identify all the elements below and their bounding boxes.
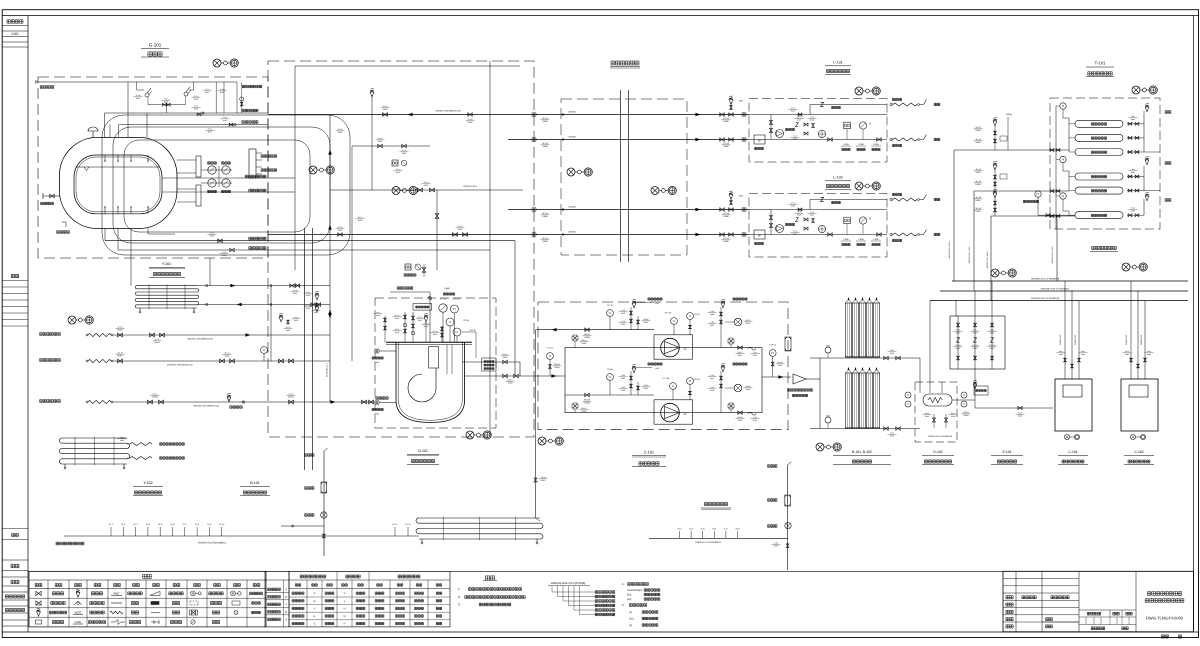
legend symbols (36, 591, 41, 595)
bubble trios mid bus (567, 168, 575, 176)
svg-text:DN25: DN25 (973, 347, 978, 350)
pump loop rectangle (565, 348, 762, 413)
svg-text:LNG(80): LNG(80) (568, 136, 576, 139)
svg-text:TI: TI (907, 394, 910, 397)
svg-text:Y-101: Y-101 (162, 262, 171, 266)
svg-text:YP-13: YP-13 (286, 326, 291, 329)
strip row 533 (2, 528, 28, 530)
CNG bus lines (952, 280, 1188, 282)
valve stack 2 (404, 312, 406, 342)
svg-text:LS-13: LS-13 (797, 211, 802, 214)
svg-text:DN15: DN15 (753, 419, 758, 422)
svg-text:SP: SP (758, 140, 762, 143)
tank G-101 outer shell (59, 137, 177, 228)
svg-text:W10: W10 (621, 312, 625, 315)
tank wrap-around pipe loop 1 (102, 115, 350, 255)
relief group on LP line (994, 125, 996, 150)
manifold instrument pair (392, 160, 398, 166)
riser to MP cylinder group (973, 191, 975, 291)
manifold vertical x352 (351, 190, 353, 361)
svg-text:LL-12: LL-12 (793, 230, 797, 233)
svg-text:DN80: DN80 (723, 240, 729, 243)
heater instruments (905, 392, 911, 398)
svg-text:TG-17: TG-17 (357, 216, 362, 219)
svg-text:Z-101: Z-101 (644, 451, 654, 455)
svg-text:LS06: LS06 (873, 238, 879, 241)
svg-text:LS06: LS06 (858, 238, 864, 241)
svg-text:DN25: DN25 (890, 352, 894, 355)
svg-text:W11: W11 (376, 311, 379, 314)
svg-text:T-101: T-101 (1095, 61, 1106, 66)
L-132 mass flowmeter (818, 225, 825, 232)
dispenser cabinet C-102 (1121, 379, 1158, 431)
legend table T1 (29, 571, 266, 627)
svg-text:(50): (50) (627, 598, 631, 601)
svg-text:LNG: LNG (75, 620, 82, 624)
svg-text:W7-10: W7-10 (433, 330, 438, 333)
dispenser screen C-102 (1129, 385, 1148, 397)
vaporizer to heater line (905, 357, 920, 359)
svg-text:XG-11: XG-11 (224, 352, 229, 355)
dispenser bubbles C-102 (1130, 434, 1135, 439)
svg-text:SP-10: SP-10 (395, 314, 400, 317)
svg-text:TT: TT (608, 312, 612, 315)
vaporizer outlet valves (884, 356, 888, 360)
svg-text:GP7-16: GP7-16 (453, 298, 460, 301)
svg-text:Q-101: Q-101 (418, 449, 428, 453)
coil Y-101 horizontal vaporizer (137, 285, 197, 287)
svg-text:DN15: DN15 (395, 331, 399, 334)
relief on flange (424, 317, 428, 322)
svg-text:LNG100-1-BA1/BW10-C01: LNG100-1-BA1/BW10-C01 (187, 338, 214, 341)
svg-text:ET7-00: ET7-00 (665, 312, 672, 315)
valve stack 4 (441, 326, 443, 342)
svg-text:DN50: DN50 (458, 228, 463, 231)
svg-text:S-90: S-90 (621, 386, 625, 389)
svg-text:B-101: B-101 (250, 481, 260, 485)
svg-text:0-15: 0-15 (701, 528, 705, 531)
strip middle rows 合图 (11, 274, 19, 277)
flame arrestor right (785, 523, 791, 529)
svg-text:PT: PT (1036, 193, 1040, 196)
svg-text:DN80: DN80 (542, 215, 548, 218)
svg-text:DN15: DN15 (644, 321, 649, 324)
dispenser feed pipes C-101 (1064, 281, 1066, 379)
svg-text:DN25: DN25 (797, 119, 801, 122)
svg-text:0-16: 0-16 (712, 528, 716, 531)
silencer capsule left (321, 482, 327, 493)
svg-text:S-10: S-10 (621, 309, 625, 312)
manifold vertical x330 (329, 115, 331, 403)
svg-text:0-18: 0-18 (736, 528, 740, 531)
cylinder group low pressure (1075, 120, 1123, 127)
svg-text:LNG80-1-BA1/BW10-C04: LNG80-1-BA1/BW10-C04 (435, 110, 461, 113)
svg-text:C: C (285, 587, 287, 591)
bubbles Y-101 (68, 316, 76, 324)
L-132 valve cluster (796, 218, 799, 222)
svg-text:DN40: DN40 (582, 410, 587, 413)
pressure building riser x271 (270, 286, 272, 361)
svg-text:DN50: DN50 (222, 254, 227, 257)
title block (1003, 571, 1194, 632)
svg-text:DN40: DN40 (402, 152, 407, 155)
svg-text:DN40: DN40 (503, 356, 508, 359)
svg-text:YB-1S: YB-1S (507, 379, 513, 382)
separator capsule on Z box edge (785, 337, 791, 351)
bus line y234.5 (268, 234, 749, 236)
vaporizer headers (810, 357, 905, 359)
svg-text:SP-10: SP-10 (542, 142, 548, 145)
svg-text:01-10: 01-10 (219, 523, 225, 526)
svg-text:LL-10: LL-10 (810, 211, 814, 214)
svg-text:LNG/CNG(50): LNG/CNG(50) (627, 589, 642, 592)
svg-text:S-12: S-12 (753, 416, 757, 419)
svg-text:CNG25-A23: CNG25-A23 (1125, 335, 1128, 345)
dashed box Q-101 pump skid (375, 298, 496, 428)
svg-text:PBC: PBC (113, 591, 120, 595)
svg-text:G-101: G-101 (149, 43, 162, 48)
panel risers to CNG bus (955, 301, 957, 317)
four-lobe cluster left top (572, 335, 578, 341)
svg-text:DN25: DN25 (956, 332, 961, 335)
svg-text:S-40: S-40 (710, 321, 714, 324)
Y-102 hoses (130, 443, 152, 446)
svg-text:DN50-A12+1.5-WX/BW19: DN50-A12+1.5-WX/BW19 (695, 541, 721, 544)
pump column inside (429, 347, 439, 368)
svg-text:DN80: DN80 (723, 145, 729, 148)
valve stack 3 (412, 312, 414, 342)
dispenser feed pipes C-102 (1130, 281, 1132, 379)
bubbles CNG bus (991, 269, 999, 277)
svg-text:DN15: DN15 (753, 354, 758, 357)
svg-text:DN25: DN25 (990, 347, 995, 350)
svg-text:DN40: DN40 (541, 479, 546, 482)
dashed box Z-101 skid (538, 302, 788, 430)
L-131 gauge (859, 122, 866, 129)
svg-text:H: H (344, 607, 346, 610)
svg-text:S-90: S-90 (621, 374, 625, 377)
code table T3 (289, 571, 450, 627)
svg-text:V: V (344, 592, 346, 595)
HP relief manifold (649, 537, 788, 539)
svg-text:L-131: L-131 (833, 61, 842, 65)
svg-text:LH-10: LH-10 (791, 202, 796, 205)
svg-text:DN40: DN40 (375, 361, 380, 364)
svg-text:DN50: DN50 (118, 355, 123, 358)
svg-text:DN25: DN25 (975, 141, 981, 144)
svg-text:TT: TT (962, 403, 966, 406)
svg-text:Yb-11: Yb-11 (975, 126, 981, 129)
pump1 discharge fittings (728, 338, 734, 344)
svg-text:DN15: DN15 (376, 314, 380, 317)
tank top risers (127, 82, 129, 137)
gas outlet B line (105, 112, 269, 114)
unloading line 3 liquid (40, 400, 61, 403)
svg-text:S-10: S-10 (710, 386, 714, 389)
manifold vertical x437 (436, 190, 438, 270)
svg-text:DN25: DN25 (810, 119, 814, 122)
svg-text:D: D (344, 615, 346, 618)
L-131 pump (776, 130, 784, 138)
svg-text:SP-10: SP-10 (542, 212, 548, 215)
gauge LT (453, 328, 461, 336)
svg-text:XB-02: XB-02 (746, 385, 751, 388)
svg-text:XB-1R: XB-1R (554, 363, 560, 366)
svg-text:DN25: DN25 (975, 199, 981, 202)
pump2 instrument row (607, 374, 614, 381)
svg-text:PI: PI (549, 355, 552, 358)
svg-text:YG-13: YG-13 (723, 212, 730, 215)
svg-text:DN40: DN40 (375, 413, 380, 416)
manifold inner line y146 (352, 145, 430, 147)
svg-text:GP-30: GP-30 (464, 319, 469, 322)
svg-text:LNG25-2-BA1: LNG25-2-BA1 (463, 185, 478, 188)
svg-text:XB-07: XB-07 (644, 384, 649, 387)
svg-text:FI: FI (869, 123, 871, 126)
pump outlet to HP pump (462, 361, 520, 363)
svg-text:TG-10: TG-10 (382, 105, 387, 108)
svg-text:W13: W13 (710, 377, 714, 380)
svg-text:SP-12: SP-12 (418, 316, 423, 319)
svg-text:G: G (313, 600, 315, 603)
tank nozzles bottom (104, 208, 106, 214)
gauge TT (446, 318, 454, 326)
svg-text:TL-10: TL-10 (194, 105, 198, 108)
svg-text:S-11: S-11 (753, 351, 757, 354)
svg-text:CNG25-A23-1.5-WX: CNG25-A23-1.5-WX (968, 246, 971, 264)
L-131 mass flowmeter (818, 130, 825, 137)
svg-text:SP-11: SP-11 (395, 328, 400, 331)
svg-text:YP-10: YP-10 (293, 289, 298, 292)
svg-text:DN80: DN80 (542, 120, 548, 123)
relief valve 1 with lever (136, 82, 138, 90)
svg-text:XL-12: XL-12 (153, 393, 158, 396)
svg-text:DN100: DN100 (288, 396, 294, 399)
svg-text:DN100: DN100 (154, 341, 160, 344)
svg-text:CNG25-A23-1.5-WX: CNG25-A23-1.5-WX (986, 251, 989, 269)
manifold inner top line (295, 65, 520, 67)
svg-text:DN80: DN80 (383, 108, 388, 111)
svg-text:ZD-101: ZD-101 (955, 344, 961, 347)
svg-text:BOG: BOG (75, 611, 82, 615)
svg-text:XL-11: XL-11 (155, 338, 160, 341)
svg-text:ET-1A: ET-1A (547, 347, 553, 350)
BOG heater connection riser (535, 330, 537, 518)
svg-text:Yb-13: Yb-13 (975, 180, 981, 183)
svg-text:LNG(80): LNG(80) (568, 231, 576, 234)
svg-text:LS06: LS06 (858, 143, 864, 146)
pump drain connector left (375, 400, 377, 405)
strip lower rows (2, 559, 28, 561)
left trench vertical pair (304, 228, 306, 470)
svg-text:Yb-15: Yb-15 (975, 207, 981, 210)
metering outlet line to dispensers (975, 407, 1053, 409)
svg-text:Y-102: Y-102 (143, 481, 152, 485)
svg-text:LL-10: LL-10 (810, 116, 814, 119)
pump1 right relief group (720, 307, 722, 348)
svg-text:DN100-57x3.5-BA1/BW13: DN100-57x3.5-BA1/BW13 (198, 542, 227, 545)
svg-text:DN100: DN100 (117, 329, 123, 332)
heater stems (929, 382, 931, 393)
svg-text:CNG25-A23: CNG25-A23 (1074, 335, 1077, 345)
svg-text:XL-10: XL-10 (118, 326, 123, 329)
svg-text:DN15: DN15 (418, 319, 422, 322)
L-131 bypass line (810, 104, 887, 106)
svg-text:Vb-10: Vb-10 (890, 349, 895, 352)
svg-text:DN15: DN15 (644, 387, 649, 390)
L-132 gauge (859, 217, 866, 224)
svg-text:LH-10: LH-10 (791, 107, 796, 110)
relief stubs before dispenser entries (730, 103, 732, 110)
dispenser bubbles C-101 (1064, 434, 1069, 439)
L-131 liquid line with filter (749, 139, 887, 141)
svg-text:DN25: DN25 (890, 435, 894, 438)
svg-text:DN25: DN25 (975, 129, 981, 132)
svg-text:LNG(80): LNG(80) (568, 111, 576, 114)
svg-text:DN25: DN25 (797, 214, 801, 217)
svg-text:3.: 3. (458, 603, 461, 607)
svg-text:DN18: DN18 (1006, 113, 1012, 116)
svg-text:DN25: DN25 (164, 101, 168, 104)
svg-text:DN25: DN25 (793, 138, 797, 141)
svg-text:DN25: DN25 (306, 307, 310, 310)
svg-text:DN40: DN40 (444, 287, 450, 290)
L-132 hose A out (890, 198, 892, 200)
svg-text:Xb-13: Xb-13 (990, 329, 995, 332)
notes 说明 block (485, 576, 494, 580)
svg-text:YB-20: YB-20 (541, 476, 546, 479)
tank nozzles top (104, 155, 106, 160)
svg-text:ET-06: ET-06 (607, 368, 613, 371)
bubbles vaporizer (816, 443, 824, 451)
svg-text:Eb-10: Eb-10 (1018, 412, 1023, 415)
svg-text:CNG25-A23: CNG25-A23 (1140, 335, 1143, 345)
label LNG trench (611, 61, 639, 65)
svg-text:PI: PI (263, 349, 266, 352)
svg-text:C: C (314, 592, 316, 595)
bus line y209.5 (508, 209, 749, 211)
svg-text:LS06: LS06 (843, 238, 849, 241)
dashed box D-102 (915, 382, 957, 442)
svg-text:DN80: DN80 (723, 215, 729, 218)
inlet triangle from pump (793, 374, 806, 384)
svg-text:S-10: S-10 (621, 320, 625, 323)
cryo alarm valve (240, 97, 244, 101)
svg-text:TG-18: TG-18 (467, 118, 472, 121)
manifold vertical x490 (489, 61, 491, 437)
svg-text:DN15: DN15 (433, 333, 437, 336)
svg-text:W60: W60 (710, 313, 714, 316)
svg-text:DN40: DN40 (584, 336, 590, 339)
svg-text:TI: TI (963, 394, 966, 397)
svg-text:DN50: DN50 (225, 355, 230, 358)
coil Y-101 bottom line (197, 304, 330, 306)
svg-text:S-10: S-10 (710, 374, 714, 377)
bubbles CNG trench (1122, 263, 1130, 271)
coil Y-101 top line (197, 285, 330, 287)
heater riser to CNG bus (929, 301, 931, 383)
svg-text:CNG25-A23-1.5-WX: CNG25-A23-1.5-WX (948, 241, 951, 259)
svg-text:DN25: DN25 (791, 110, 795, 113)
pump signal box (482, 358, 496, 371)
trench vertical pair (620, 90, 622, 262)
pump1 valve stacks (630, 307, 632, 330)
unloading line 1 vapor (40, 333, 61, 336)
title block middle: stage/scale (1079, 609, 1136, 611)
U-trap valve right stack (786, 544, 789, 548)
svg-text:YG-13: YG-13 (723, 142, 730, 145)
relief group on HP line (994, 196, 996, 216)
svg-text:XB-17: XB-17 (738, 351, 743, 354)
liquid outlet lines bottom (105, 240, 515, 242)
svg-text:0-17: 0-17 (724, 528, 728, 531)
bottom band top line (28, 570, 1194, 572)
four-lobe cluster left bottom (572, 403, 578, 409)
svg-text:DC10: DC10 (963, 411, 969, 414)
L-132 twin instrument (844, 217, 851, 224)
svg-text:TG-16: TG-16 (337, 128, 342, 131)
tank bottom risers (104, 229, 106, 241)
svg-text:LNG(50)-A12-1.5-X(C)/X(B): LNG(50)-A12-1.5-X(C)/X(B) (551, 581, 586, 585)
L-132 pump (776, 225, 784, 233)
svg-text:YG-13: YG-13 (723, 237, 730, 240)
pump pot flange (386, 341, 472, 343)
svg-text:LNG(80): LNG(80) (568, 206, 576, 209)
riser to LP cylinder group (953, 150, 955, 281)
svg-text:DN25: DN25 (956, 347, 961, 350)
L-131 twin instrument (844, 122, 851, 129)
svg-text:ZD-103: ZD-103 (989, 344, 995, 347)
svg-text:DN25: DN25 (975, 171, 981, 174)
svg-text:DN25: DN25 (990, 332, 995, 335)
svg-text:CNG25-A23-1.5-WX/BW19: CNG25-A23-1.5-WX/BW19 (928, 435, 953, 438)
tank wrap-around pipe loop 3 (124, 140, 310, 232)
local control box (413, 304, 432, 311)
svg-text:XB-06: XB-06 (644, 318, 649, 321)
svg-text:E-101: E-101 (1002, 450, 1011, 454)
svg-text:C-102: C-102 (1134, 450, 1143, 454)
local control box D-102 (974, 386, 988, 395)
coil B-101 BOG heater (419, 517, 540, 519)
svg-text:DN15: DN15 (778, 364, 783, 367)
svg-text:L-132: L-132 (833, 176, 842, 180)
svg-text:GP7-07: GP7-07 (470, 329, 477, 332)
vaporizer bank lower (845, 373, 851, 428)
svg-text:CAD: CAD (11, 32, 19, 36)
label CNG trench (1092, 246, 1116, 249)
svg-text:TG-11: TG-11 (424, 181, 429, 184)
svg-text:PI: PI (689, 315, 692, 318)
svg-text:DN15: DN15 (395, 317, 399, 320)
svg-text:W07: W07 (710, 324, 714, 327)
title text (1147, 592, 1181, 596)
gauge PI (439, 304, 447, 312)
L-132 bypass line (810, 199, 887, 201)
right edge labels mid (245, 175, 266, 178)
svg-text:SP-10: SP-10 (542, 237, 548, 240)
svg-text:DN25: DN25 (306, 294, 310, 297)
svg-text:TP-10: TP-10 (396, 168, 401, 171)
relief manifold risers (110, 527, 112, 536)
svg-text:C: C (314, 623, 316, 626)
bubbles L-131 (855, 87, 863, 95)
svg-text:01-12: 01-12 (405, 523, 411, 526)
level gauge standpipes (196, 156, 201, 177)
heater drains (932, 418, 935, 422)
svg-text:LS06: LS06 (843, 143, 849, 146)
svg-text:TT: TT (672, 320, 676, 323)
svg-text:LNG100-1-BA1/BW10-C01: LNG100-1-BA1/BW10-C01 (193, 405, 220, 408)
